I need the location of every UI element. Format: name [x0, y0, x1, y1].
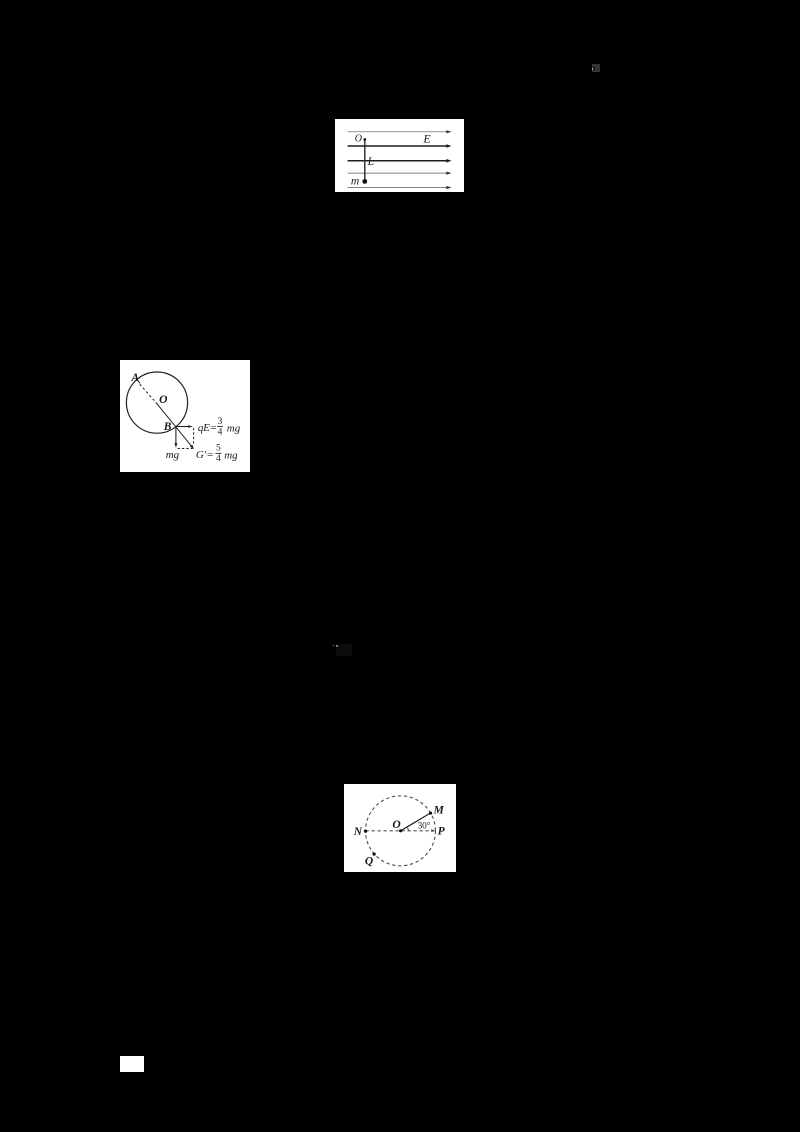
svg-text:L: L	[367, 156, 374, 168]
svg-text:Q: Q	[364, 855, 372, 867]
svg-text:G′=: G′=	[196, 449, 214, 461]
figure 3: dashed circle with M N O P Q and 30 degrees	[344, 784, 457, 872]
dashed line N-P	[365, 830, 431, 832]
svg-text:m: m	[351, 176, 359, 188]
small gray ui square top right	[592, 64, 600, 72]
white page-number block bottom left	[120, 1056, 144, 1072]
ball m	[362, 179, 367, 184]
field line 5	[348, 186, 452, 189]
node Q	[372, 853, 375, 856]
wire OL (string)	[364, 140, 366, 182]
node O (pivot dot)	[363, 138, 366, 141]
arrow mg from B	[175, 427, 177, 445]
svg-text:mg: mg	[227, 422, 241, 434]
svg-text:M: M	[432, 804, 444, 816]
svg-text:mg: mg	[224, 449, 238, 461]
dashed circle	[365, 796, 435, 866]
dashed radius A-O	[140, 384, 156, 402]
svg-text:O: O	[159, 394, 167, 406]
figure 1: charged pendulum in uniform field E	[335, 119, 464, 192]
label G' = 5/4 mg	[196, 443, 238, 464]
circle O	[126, 372, 187, 433]
svg-text:3: 3	[218, 417, 223, 427]
svg-text:30°: 30°	[417, 820, 430, 830]
svg-text:P: P	[437, 826, 445, 838]
angle arc 30 deg	[407, 827, 408, 831]
line O-B extended (G' vector)	[156, 402, 192, 446]
faint artifact dots mid page	[333, 645, 335, 647]
label qE = 3/4 mg	[198, 417, 241, 437]
figure 2: ball on circle with force parallelogram	[120, 360, 250, 472]
faint artifact rect mid page	[336, 644, 352, 656]
field line 1	[348, 130, 452, 133]
svg-text:O: O	[392, 819, 400, 831]
svg-text:mg: mg	[166, 449, 180, 461]
svg-text:E: E	[422, 132, 431, 146]
field line 3	[348, 159, 452, 163]
svg-text:4: 4	[218, 427, 223, 437]
wire tick at A	[137, 380, 140, 384]
radius O-M	[400, 813, 430, 831]
svg-text:4: 4	[216, 454, 221, 464]
field line 4	[348, 172, 452, 175]
svg-text:N: N	[352, 826, 362, 838]
node N	[363, 830, 366, 833]
dashed parallelogram side horizontal	[178, 448, 193, 450]
arrow qE from B	[176, 426, 189, 428]
svg-text:O: O	[355, 133, 362, 144]
node M	[428, 812, 431, 815]
svg-text:5: 5	[216, 443, 221, 453]
svg-text:B: B	[163, 421, 172, 433]
node O	[399, 829, 402, 832]
field line 2	[348, 144, 452, 148]
svg-text:A: A	[130, 372, 139, 384]
dashed parallelogram side vertical	[193, 428, 195, 445]
svg-text:qE=: qE=	[198, 422, 217, 434]
